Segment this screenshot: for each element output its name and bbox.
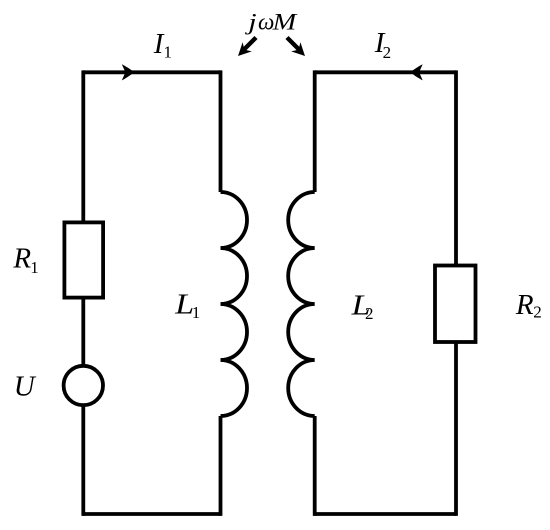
- wire: left loop right vertical (top, to L1): [219, 70, 223, 192]
- resistor R1: [64, 222, 103, 297]
- svg-text:R: R: [12, 243, 31, 275]
- svg-text:1: 1: [164, 42, 173, 61]
- svg-text:2: 2: [533, 303, 542, 322]
- wire: left loop left vertical (U to R1): [81, 299, 85, 365]
- source U circle: [64, 366, 103, 405]
- wire: left loop top horizontal: [83, 70, 220, 74]
- mutual coupling arrow (right, toward L2): [287, 38, 305, 57]
- inductor L1: [221, 192, 248, 416]
- svg-text:R: R: [515, 289, 534, 321]
- svg-text:U: U: [14, 371, 37, 403]
- arrowhead I2 current direction: [410, 64, 423, 80]
- wire: right loop left vertical (top, to L2): [313, 70, 317, 192]
- wire: left loop right vertical (below L1): [219, 416, 223, 516]
- wire: left loop bottom horizontal: [83, 512, 220, 516]
- wire: left loop left vertical (top, R1 up): [81, 70, 85, 222]
- svg-text:2: 2: [365, 304, 374, 323]
- wire: right loop left vertical (below L2): [313, 416, 317, 516]
- svg-text:1: 1: [30, 258, 39, 277]
- arrowhead I1 current direction: [122, 64, 135, 80]
- wire: right loop top horizontal: [315, 70, 456, 74]
- wire: right loop right vertical (bottom, to R2): [454, 342, 458, 516]
- wire: left loop left vertical (bottom, to source U): [81, 406, 85, 516]
- svg-text:2: 2: [383, 43, 392, 62]
- inductor L2: [288, 192, 315, 416]
- svg-text:M: M: [272, 9, 298, 35]
- svg-text:1: 1: [192, 303, 201, 322]
- wire: right loop bottom horizontal: [315, 512, 456, 516]
- mutual coupling arrow (left, toward L1): [238, 38, 256, 57]
- wire: right loop right vertical (top, R2 up): [454, 70, 458, 265]
- resistor R2: [435, 266, 476, 343]
